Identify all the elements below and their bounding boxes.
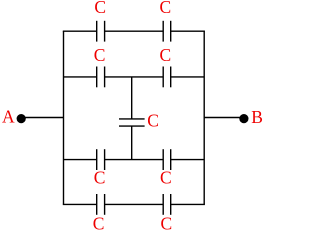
svg-text:C: C [160, 0, 172, 17]
svg-text:C: C [94, 45, 106, 65]
svg-text:C: C [94, 168, 106, 188]
svg-text:B: B [251, 107, 263, 127]
svg-text:C: C [93, 214, 105, 233]
svg-text:C: C [147, 111, 159, 131]
svg-text:C: C [160, 45, 172, 65]
svg-text:C: C [160, 167, 172, 187]
svg-text:A: A [2, 107, 15, 127]
svg-text:C: C [94, 0, 106, 17]
svg-text:C: C [160, 214, 172, 233]
